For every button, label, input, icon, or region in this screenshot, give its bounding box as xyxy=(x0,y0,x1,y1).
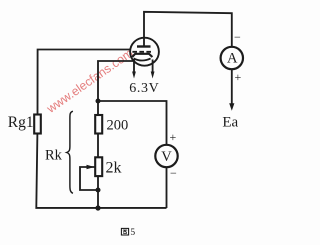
svg-text:Rk: Rk xyxy=(45,148,63,164)
svg-text:−: − xyxy=(234,30,241,44)
svg-text:Rg1: Rg1 xyxy=(8,114,34,131)
svg-text:5: 5 xyxy=(130,228,135,238)
svg-text:V: V xyxy=(161,149,172,165)
svg-text:+: + xyxy=(170,130,177,144)
svg-text:A: A xyxy=(227,51,238,67)
svg-text:Ea: Ea xyxy=(222,114,238,130)
svg-text:+: + xyxy=(235,70,242,84)
svg-text:−: − xyxy=(170,166,177,180)
svg-text:200: 200 xyxy=(107,118,129,134)
svg-text:6.3V: 6.3V xyxy=(129,81,159,96)
svg-text:2k: 2k xyxy=(106,160,122,177)
